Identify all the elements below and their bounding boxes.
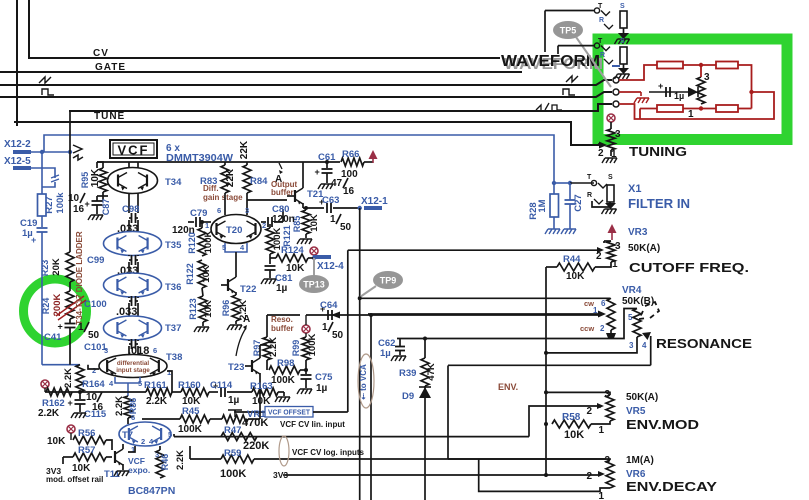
- svg-text:CV: CV: [93, 48, 109, 59]
- wire: [41, 216, 43, 227]
- node: [304, 206, 308, 210]
- wire: [267, 314, 300, 316]
- svg-text:1: 1: [612, 259, 618, 270]
- test point TP5: [553, 21, 583, 39]
- jack J1 R contact: [604, 24, 613, 29]
- power arrow: [608, 224, 617, 233]
- transistor T23: [251, 360, 253, 372]
- wire: [612, 65, 620, 67]
- wire: [247, 199, 287, 201]
- svg-text:+: +: [85, 199, 90, 209]
- svg-text:BC847PN: BC847PN: [128, 485, 175, 497]
- svg-text:100k: 100k: [55, 192, 66, 214]
- capacitor C79: [188, 221, 194, 223]
- potentiometer VR6: [597, 459, 610, 460]
- test point: [41, 380, 49, 388]
- resistor R95: [99, 168, 107, 192]
- svg-text:GATE: GATE: [95, 62, 126, 73]
- transistor pair T38: [99, 355, 167, 378]
- resistor R47: [221, 433, 257, 441]
- transistor T22: [227, 279, 229, 291]
- svg-text:50K(A): 50K(A): [628, 243, 660, 254]
- svg-text:T: T: [598, 3, 603, 10]
- svg-text:10K: 10K: [309, 214, 320, 232]
- rail: [96, 162, 98, 168]
- wire: [397, 309, 637, 339]
- svg-text:1M(A): 1M(A): [626, 455, 654, 466]
- svg-text:6: 6: [217, 206, 221, 215]
- ground: [318, 184, 333, 189]
- svg-text:C61: C61: [318, 152, 336, 163]
- svg-text:C75: C75: [315, 372, 333, 383]
- svg-text:R84: R84: [250, 176, 268, 187]
- svg-text:T: T: [587, 174, 592, 181]
- svg-text:1: 1: [688, 109, 694, 120]
- svg-text:1: 1: [598, 491, 604, 500]
- jack J2: [594, 43, 599, 48]
- svg-text:2: 2: [598, 148, 604, 159]
- svg-text:C63: C63: [322, 195, 339, 206]
- node: [544, 390, 548, 394]
- transistor T11: [114, 451, 116, 463]
- wire: [128, 346, 130, 355]
- node: [258, 390, 262, 394]
- svg-text:R122: R122: [185, 263, 195, 285]
- resistor R27: [38, 194, 47, 216]
- wire: [300, 369, 306, 371]
- wire: [225, 243, 247, 252]
- wire: [224, 193, 226, 215]
- svg-text:10K: 10K: [72, 463, 91, 474]
- wire: [479, 459, 610, 491]
- resistor R84: [246, 162, 248, 165]
- svg-text:R46: R46: [160, 454, 170, 471]
- svg-text:220K: 220K: [243, 440, 269, 452]
- svg-text:mod. offset rail: mod. offset rail: [46, 475, 103, 484]
- svg-text:T: T: [598, 38, 603, 45]
- node: [358, 206, 362, 210]
- svg-text:1µ: 1µ: [380, 348, 391, 359]
- svg-text:+: +: [58, 322, 63, 332]
- svg-text:2.2K: 2.2K: [175, 450, 186, 470]
- wire: [553, 217, 555, 229]
- diode D9: [424, 386, 426, 500]
- svg-text:2: 2: [141, 437, 145, 446]
- wire: [42, 364, 80, 366]
- wire: [254, 458, 597, 460]
- resistor R85: [302, 210, 310, 234]
- module box VCF: [110, 140, 157, 158]
- test point: [607, 114, 615, 122]
- wire square: [0, 92, 612, 97]
- svg-text:R59: R59: [224, 448, 241, 459]
- svg-text:TP13: TP13: [303, 280, 325, 290]
- resistor (red) top-left: [657, 62, 683, 69]
- capacitor C19: [37, 227, 48, 229]
- ground: [71, 413, 86, 418]
- svg-text:TP9: TP9: [380, 276, 397, 286]
- svg-text:C114: C114: [210, 380, 233, 391]
- resistor R23: [66, 252, 74, 282]
- capacitor C80: [261, 221, 266, 223]
- test point TP9: [373, 271, 403, 289]
- svg-text:R99: R99: [291, 340, 301, 357]
- svg-text:T37: T37: [165, 323, 181, 334]
- wire wiper: [598, 143, 601, 145]
- svg-text:47K: 47K: [426, 363, 437, 381]
- svg-text:VCF OFFSET: VCF OFFSET: [268, 408, 310, 417]
- resistor R124: [270, 257, 276, 259]
- resistor R96: [232, 295, 240, 321]
- ground: [605, 203, 616, 209]
- wire: [359, 208, 361, 500]
- capacitor C75: [301, 374, 312, 376]
- svg-text:10K: 10K: [47, 436, 66, 447]
- label VCF OFFSET: [265, 407, 313, 418]
- capacitor C115: [79, 392, 81, 399]
- node: [325, 160, 329, 164]
- square symbol: [563, 89, 575, 95]
- svg-text:R164: R164: [82, 379, 105, 390]
- svg-text:D9: D9: [402, 391, 414, 402]
- svg-text:120n: 120n: [272, 214, 295, 225]
- svg-text:C99: C99: [87, 255, 104, 266]
- svg-text:input stage: input stage: [116, 367, 150, 374]
- resistor R24: [66, 291, 74, 319]
- sawtooth symbol: [566, 76, 578, 82]
- transistor T21: [294, 190, 296, 202]
- test point: [302, 325, 310, 333]
- svg-text:1µ: 1µ: [276, 283, 288, 294]
- svg-text:R: R: [600, 52, 605, 59]
- wire: [102, 192, 104, 200]
- diode: [688, 87, 698, 97]
- svg-text:R86: R86: [128, 398, 138, 415]
- svg-text:ENV.: ENV.: [498, 382, 518, 392]
- wire: [235, 410, 265, 412]
- svg-text:C27: C27: [573, 194, 584, 211]
- svg-text:S: S: [608, 174, 613, 181]
- wire wiper VR4a: [368, 313, 598, 315]
- svg-text:TP5: TP5: [560, 26, 577, 36]
- svg-text:2: 2: [586, 406, 592, 417]
- ground: [261, 279, 276, 284]
- wire: [128, 297, 130, 298]
- wire: [227, 391, 252, 393]
- wire wiper VR4b: [650, 336, 652, 365]
- svg-text:16: 16: [92, 402, 104, 413]
- node: [749, 90, 753, 94]
- wire: [639, 109, 641, 120]
- svg-text:R121: R121: [282, 225, 292, 247]
- svg-text:100K: 100K: [220, 468, 246, 480]
- resistor R164: [76, 365, 84, 392]
- wire: [128, 303, 130, 316]
- svg-text:1: 1: [598, 425, 604, 436]
- svg-text:S: S: [620, 3, 625, 10]
- resistor R45: [180, 415, 210, 423]
- resistor R44: [546, 266, 557, 268]
- svg-text:VR4: VR4: [622, 285, 642, 296]
- wire: [127, 418, 129, 424]
- svg-text:C79: C79: [190, 208, 207, 219]
- sawtooth glyph: [73, 145, 83, 160]
- trimmer VR1: [222, 415, 248, 423]
- svg-text:50: 50: [88, 330, 100, 341]
- svg-text:+: +: [68, 398, 73, 408]
- svg-text:C41: C41: [44, 332, 62, 343]
- wire: [448, 364, 651, 366]
- capacitor C98: [131, 213, 133, 223]
- resistor R122: [198, 260, 206, 288]
- ground (blue): [545, 229, 560, 234]
- wire wiper: [597, 406, 601, 407]
- svg-text:S: S: [620, 38, 625, 45]
- leader: [576, 37, 611, 87]
- wire: [42, 182, 55, 187]
- svg-text:WAVEFORM: WAVEFORM: [501, 53, 600, 70]
- capacitor C61: [326, 162, 328, 168]
- wire: [16, 0, 18, 126]
- svg-text:+: +: [658, 81, 663, 91]
- svg-text:2: 2: [92, 366, 96, 375]
- ground: [275, 397, 290, 402]
- svg-text:100K: 100K: [271, 375, 296, 386]
- wire: [313, 411, 348, 413]
- wire: [683, 108, 716, 110]
- svg-text:T35: T35: [165, 240, 182, 251]
- wire: [592, 201, 610, 207]
- resistor (red) bottom-left: [657, 105, 683, 112]
- jack J2 R contact: [604, 59, 613, 64]
- svg-text:R44: R44: [563, 254, 581, 265]
- svg-text:10K: 10K: [90, 168, 101, 187]
- ground arrow: [610, 330, 612, 333]
- svg-text:100K: 100K: [307, 334, 318, 357]
- svg-text:R123: R123: [188, 298, 198, 320]
- svg-text:VCF CV lin. input: VCF CV lin. input: [280, 420, 345, 429]
- wire CV rail: [45, 391, 80, 393]
- ground (red): [640, 92, 642, 96]
- svg-text:R160: R160: [178, 380, 201, 391]
- wire: [31, 168, 55, 178]
- svg-text:C100: C100: [84, 299, 107, 310]
- resistor R98: [269, 366, 300, 374]
- wire saw: [0, 80, 612, 85]
- resistor R161: [146, 388, 172, 396]
- svg-text:T20: T20: [226, 225, 242, 236]
- svg-text:differential: differential: [117, 360, 149, 367]
- connector X12-1: [364, 206, 382, 210]
- highlight box: [598, 39, 787, 140]
- wire: [599, 142, 607, 149]
- node: [552, 181, 556, 185]
- svg-text:TUNE: TUNE: [94, 111, 125, 122]
- resistor (red) bottom-right: [716, 105, 738, 112]
- wire: [360, 297, 610, 299]
- wire: [260, 344, 267, 346]
- capacitor C100: [131, 296, 133, 306]
- wire: [278, 391, 284, 393]
- resistor R123: [199, 296, 207, 322]
- resistor R86: [124, 396, 132, 418]
- wire: [106, 456, 112, 458]
- svg-text:50: 50: [340, 222, 352, 233]
- contact 3: [613, 101, 619, 107]
- wire: [619, 92, 774, 119]
- wire: [167, 371, 172, 392]
- potentiometer VR3: [604, 240, 611, 242]
- wire: [619, 91, 641, 93]
- svg-text:R: R: [599, 17, 604, 24]
- saw/square symbol: [536, 103, 562, 110]
- ground (blue): [561, 229, 576, 234]
- wire: [41, 152, 43, 194]
- svg-text:X12-1: X12-1: [361, 196, 388, 207]
- node: [423, 337, 427, 341]
- wire: [128, 255, 130, 256]
- svg-text:T22: T22: [240, 284, 256, 295]
- svg-text:R95: R95: [80, 172, 90, 189]
- svg-text:2: 2: [600, 324, 605, 333]
- svg-text:expo.: expo.: [128, 465, 150, 475]
- wire wiper VR3: [348, 249, 597, 251]
- svg-text:6: 6: [131, 413, 135, 422]
- square symbol: [42, 89, 54, 95]
- test point: [67, 425, 75, 433]
- wire: [283, 474, 598, 476]
- wire: [106, 440, 112, 450]
- svg-text:20K: 20K: [51, 258, 62, 276]
- svg-text:TUNING: TUNING: [629, 145, 687, 159]
- ground: [114, 471, 129, 476]
- resistor R121: [269, 224, 271, 228]
- svg-text:VR3: VR3: [628, 227, 648, 238]
- svg-text:C98: C98: [122, 204, 139, 215]
- ground: [194, 327, 209, 332]
- capacitor C99: [131, 255, 133, 265]
- svg-text:R45: R45: [182, 406, 200, 417]
- wire: [306, 314, 600, 316]
- wire: [649, 91, 694, 93]
- wire saw-square: [69, 104, 612, 111]
- node: [544, 473, 548, 477]
- svg-text:VCF CV log. inputs: VCF CV log. inputs: [292, 448, 365, 457]
- node: [544, 351, 548, 355]
- lasso: [279, 436, 289, 466]
- wire: [683, 64, 716, 66]
- sawtooth symbol: [39, 77, 51, 83]
- resistor R163: [252, 388, 278, 396]
- wire: [570, 182, 594, 184]
- jack J1: [594, 8, 599, 13]
- svg-text:1M: 1M: [537, 199, 548, 212]
- svg-text:R27: R27: [44, 196, 55, 213]
- svg-text:3: 3: [245, 206, 249, 215]
- svg-text:1: 1: [322, 322, 328, 333]
- wire: [202, 288, 203, 296]
- wire: [190, 458, 221, 460]
- svg-text:R124: R124: [281, 245, 304, 256]
- potentiometer VR4a: [607, 298, 615, 330]
- svg-text:buffer: buffer: [271, 324, 294, 333]
- svg-text:R163: R163: [250, 381, 273, 392]
- wire: [610, 122, 612, 129]
- svg-text:T38: T38: [166, 352, 182, 363]
- wire: [235, 252, 237, 262]
- node: [78, 390, 82, 394]
- svg-text:R120: R120: [187, 232, 197, 254]
- potentiometer (trimmer): [697, 77, 705, 104]
- wire: [529, 406, 597, 437]
- wire: [128, 446, 135, 452]
- svg-text:T7: T7: [122, 430, 133, 441]
- leader: [313, 258, 315, 275]
- wire: [69, 328, 71, 365]
- resistor R39: [421, 358, 429, 386]
- svg-text:C87: C87: [101, 199, 111, 216]
- lasso: [358, 354, 374, 408]
- wire: [248, 418, 260, 420]
- svg-text:R24: R24: [41, 298, 51, 315]
- resistor R99: [302, 337, 310, 360]
- transistor pair T36: [104, 273, 162, 297]
- svg-text:1: 1: [593, 306, 598, 315]
- wire GATE: [0, 71, 522, 73]
- svg-text:R23: R23: [40, 260, 50, 277]
- svg-text:Reso.: Reso.: [271, 315, 293, 324]
- wire: [128, 220, 130, 232]
- svg-text:2.2K: 2.2K: [146, 396, 168, 407]
- node: [369, 313, 373, 317]
- svg-text:T36: T36: [165, 282, 181, 293]
- resistor R97: [263, 337, 271, 360]
- node: [699, 63, 703, 67]
- wire: [63, 456, 73, 458]
- contact 1: [613, 77, 619, 83]
- svg-text:10: 10: [68, 193, 80, 204]
- svg-text:ENV.MOD: ENV.MOD: [626, 417, 699, 432]
- wire: [591, 421, 610, 424]
- svg-text:100K: 100K: [203, 231, 214, 254]
- node: [544, 422, 548, 426]
- strikethrough: [56, 296, 86, 320]
- wire: [31, 151, 70, 153]
- wire: [173, 434, 175, 437]
- svg-text:R39: R39: [399, 368, 416, 379]
- svg-text:C64: C64: [320, 300, 338, 311]
- wire: [447, 366, 449, 460]
- svg-text:6: 6: [153, 346, 157, 355]
- capacitor C41: [65, 323, 76, 325]
- wire: [738, 65, 752, 109]
- svg-text:A: A: [243, 314, 250, 325]
- svg-text:2: 2: [586, 471, 592, 482]
- resistor R56: [73, 436, 106, 444]
- wire: [448, 458, 597, 460]
- svg-text:2.2K: 2.2K: [38, 408, 60, 419]
- wire: [115, 377, 140, 383]
- wire: [103, 195, 108, 197]
- resistor R120: [200, 220, 204, 224]
- capacitor C27: [569, 183, 571, 200]
- ground: [88, 215, 103, 220]
- jack X1 R contact: [594, 199, 603, 204]
- svg-text:VCF: VCF: [118, 143, 150, 158]
- svg-text:ccw: ccw: [580, 324, 594, 333]
- transistor pair T20: [211, 215, 261, 244]
- potentiometer TUNING: [607, 129, 615, 150]
